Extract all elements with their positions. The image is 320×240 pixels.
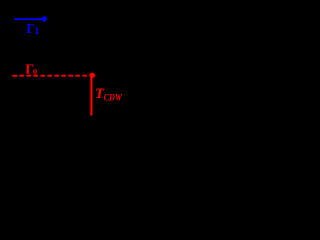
label Γ0 [25, 63, 37, 78]
wire red dashed level line Γ0 [12, 75, 94, 77]
wire red vertical drop line [90, 78, 92, 116]
wire blue level line Γ1 [15, 18, 44, 20]
svg-text:1: 1 [34, 26, 39, 37]
label TCDW [95, 86, 123, 103]
node red dot at TCDW [89, 73, 95, 79]
svg-text:CDW: CDW [104, 92, 124, 103]
label Γ1 [26, 21, 39, 37]
node blue endpoint dot [42, 16, 47, 21]
